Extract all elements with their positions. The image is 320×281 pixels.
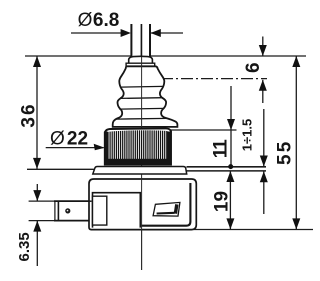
svg-text:11: 11 (210, 139, 231, 159)
svg-text:6: 6 (243, 62, 264, 73)
svg-text:55: 55 (274, 139, 295, 165)
svg-text:6.35: 6.35 (16, 232, 33, 261)
svg-text:Ø22: Ø22 (50, 128, 88, 149)
svg-text:Ø6.8: Ø6.8 (78, 10, 120, 31)
svg-text:1÷1.5: 1÷1.5 (240, 119, 255, 151)
svg-text:19: 19 (211, 191, 232, 212)
svg-text:36: 36 (18, 102, 39, 127)
